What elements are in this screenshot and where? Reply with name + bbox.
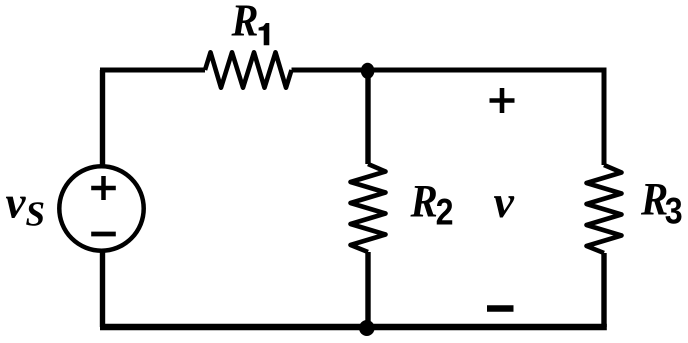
svg-text:R: R [231,0,259,46]
subscript 1 of R1 (drawn glyph) [259,23,270,45]
svg-text:R3: R3 [640,173,683,232]
source minus sign [91,232,116,237]
wire: middle vertical above R2 [365,70,370,164]
wire: left vertical above source [100,70,105,167]
wire: bottom horizontal [100,324,607,331]
resistor R1 [205,52,292,87]
wire: middle vertical below R2 [365,252,370,327]
resistor R3 [587,165,622,253]
svg-text:v: v [494,176,515,227]
node dot bottom [359,320,375,336]
wire: left vertical below source [100,250,105,327]
svg-text:R2: R2 [410,175,454,233]
source plus sign [91,176,116,200]
wire: right vertical below R3 [601,253,606,327]
source vS circle [59,166,143,250]
svg-text:vS: vS [6,178,45,234]
minus sign of v [487,305,514,312]
node dot top (junction of R1, R2 branch) [361,63,375,79]
wire: top left horizontal from source corner to R1 [103,70,206,72]
wire: top right horizontal from R1 to right corner [292,70,605,165]
plus sign of v [490,88,515,113]
resistor R2 [351,164,386,252]
